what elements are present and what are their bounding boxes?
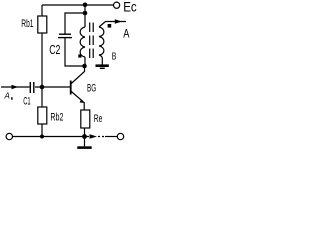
svg-text:A: A — [123, 28, 129, 40]
svg-text:Ec: Ec — [123, 0, 137, 15]
svg-text:Rb1: Rb1 — [21, 18, 33, 30]
svg-text:BG: BG — [87, 83, 96, 95]
svg-text:C1: C1 — [23, 96, 31, 108]
svg-text:C2: C2 — [49, 42, 60, 57]
svg-text:Re: Re — [94, 113, 103, 125]
svg-text:B: B — [112, 50, 117, 62]
svg-text:Rb2: Rb2 — [50, 112, 63, 124]
svg-text:A: A — [4, 92, 10, 101]
